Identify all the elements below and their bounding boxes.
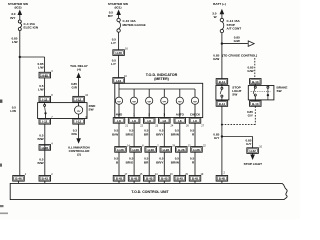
svg-text:T.O.D. CONTROL UNIT: T.O.D. CONTROL UNIT: [131, 190, 169, 194]
svg-text:BR/Y: BR/Y: [156, 160, 164, 164]
svg-text:B-45: B-45: [161, 177, 168, 181]
svg-text:W: W: [214, 15, 217, 19]
svg-text:I-12: I-12: [42, 98, 47, 102]
svg-text:(2): (2): [77, 153, 81, 157]
svg-text:B-14: B-14: [219, 80, 226, 84]
svg-text:B-45: B-45: [146, 177, 153, 181]
svg-text:B-45: B-45: [116, 177, 123, 181]
svg-text:[TO CRUISE CONTROL]: [TO CRUISE CONTROL]: [222, 53, 257, 57]
svg-text:METER·GAUGE: METER·GAUGE: [123, 23, 146, 27]
svg-text:ELEC IGN: ELEC IGN: [24, 26, 39, 30]
svg-text:I-8: I-8: [148, 119, 152, 123]
svg-text:G/Y: G/Y: [214, 136, 220, 140]
svg-text:H-28: H-28: [193, 148, 200, 152]
svg-text:STOP LIGHT: STOP LIGHT: [244, 162, 263, 166]
svg-text:B-13: B-13: [252, 102, 259, 106]
svg-text:BATT (+): BATT (+): [213, 2, 226, 6]
svg-text:I-8: I-8: [117, 119, 121, 123]
svg-text:I-12: I-12: [42, 120, 47, 124]
svg-text:H-28: H-28: [42, 146, 49, 150]
svg-text:(4): (4): [77, 67, 81, 71]
svg-text:BR/G: BR/G: [126, 160, 134, 164]
svg-text:4WD: 4WD: [116, 113, 122, 117]
svg-text:G/W: G/W: [247, 69, 253, 73]
svg-text:H-28: H-28: [163, 148, 170, 152]
svg-text:SW: SW: [89, 108, 94, 112]
svg-text:B-45: B-45: [177, 177, 184, 181]
svg-text:B-13: B-13: [252, 80, 259, 84]
svg-text:B-45: B-45: [192, 177, 199, 181]
svg-text:B/W: B/W: [112, 132, 118, 136]
svg-text:SW: SW: [277, 89, 282, 93]
svg-text:AUTO: AUTO: [176, 113, 185, 117]
svg-text:I-12: I-12: [76, 120, 81, 124]
svg-text:BR/G: BR/G: [126, 132, 134, 136]
svg-text:R/G: R/G: [71, 132, 77, 136]
svg-text:H-32: H-32: [249, 149, 256, 153]
svg-text:L/W: L/W: [12, 40, 18, 44]
svg-text:I-8: I-8: [132, 119, 136, 123]
svg-text:H-28: H-28: [132, 148, 139, 152]
svg-text:BR/Y: BR/Y: [156, 132, 164, 136]
svg-text:I-8: I-8: [178, 119, 182, 123]
svg-text:G/R: G/R: [71, 86, 77, 90]
svg-text:B-43: B-43: [42, 177, 49, 181]
svg-text:G/Y: G/Y: [246, 142, 252, 146]
svg-text:(METER): (METER): [154, 77, 169, 81]
svg-text:H-28: H-28: [117, 148, 124, 152]
svg-text:G/Y: G/Y: [248, 113, 254, 117]
svg-text:I-12: I-12: [76, 98, 81, 102]
svg-text:A/T CONT: A/T CONT: [227, 27, 242, 31]
svg-text:B-45: B-45: [219, 177, 226, 181]
svg-text:L/W: L/W: [38, 66, 44, 70]
svg-text:I-8: I-8: [163, 119, 167, 123]
svg-text:CHECK: CHECK: [190, 113, 201, 117]
svg-text:H-28: H-28: [148, 148, 155, 152]
svg-text:G/W: G/W: [234, 39, 240, 43]
svg-text:B-14: B-14: [219, 102, 226, 106]
svg-text:BR: BR: [144, 160, 149, 164]
svg-text:H-28: H-28: [178, 148, 185, 152]
svg-text:L/W: L/W: [38, 88, 44, 92]
svg-text:(IG2): (IG2): [14, 6, 21, 10]
svg-text:G/W: G/W: [213, 57, 219, 61]
svg-text:I-8: I-8: [193, 119, 197, 123]
svg-text:B/W: B/W: [37, 137, 43, 141]
svg-text:B-46: B-46: [15, 177, 22, 181]
svg-text:B-45: B-45: [131, 177, 138, 181]
svg-text:BR/W: BR/W: [171, 132, 179, 136]
svg-text:I-16: I-16: [116, 79, 121, 83]
svg-text:(IG1): (IG1): [114, 6, 121, 10]
svg-text:L/W: L/W: [10, 109, 16, 113]
svg-text:BR: BR: [144, 132, 149, 136]
svg-text:SW: SW: [232, 93, 237, 97]
svg-text:H-28: H-28: [115, 51, 122, 55]
svg-text:H-85: H-85: [42, 74, 49, 78]
svg-text:B/W: B/W: [37, 161, 43, 165]
svg-text:BR/W: BR/W: [171, 160, 179, 164]
